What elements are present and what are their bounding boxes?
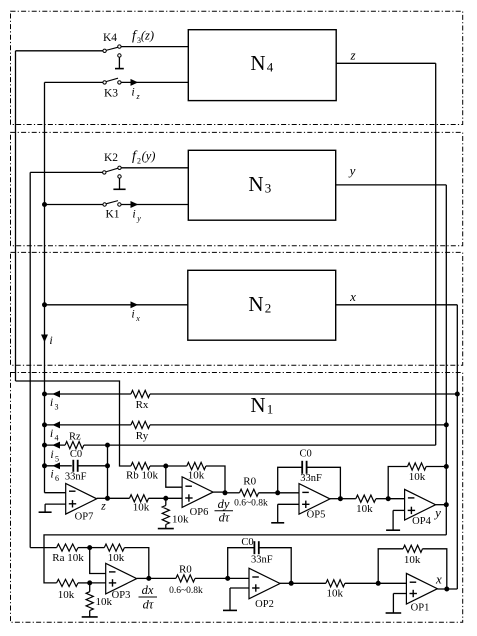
node i5: [43, 443, 47, 447]
svg-text:R0: R0: [243, 475, 256, 487]
svg-text:x: x: [435, 572, 442, 587]
label f3(z): [132, 29, 154, 46]
label i4: [50, 426, 59, 443]
wire: K2 left contact west: [30, 171, 102, 173]
svg-text:6: 6: [55, 474, 59, 483]
resistor 10k from z to OP6 +: [108, 495, 166, 514]
switch K1: [103, 201, 121, 221]
node: OP5 inverting node: [276, 491, 280, 495]
node: Ry to y line: [444, 423, 448, 427]
svg-text:Rx: Rx: [136, 399, 149, 411]
resistor Rb 10k: [126, 462, 166, 481]
svg-text:OP7: OP7: [75, 512, 94, 523]
op-amp OP7: [66, 484, 97, 523]
wire: OP5 inverting input: [278, 492, 299, 494]
wire: K3 left contact west to i-bus: [45, 81, 103, 83]
svg-text:33nF: 33nF: [251, 555, 273, 566]
capacitor C0 33nF (OP7 integrator): [65, 449, 108, 483]
node i6: [43, 464, 47, 468]
svg-text:OP5: OP5: [307, 510, 326, 521]
label ix: [131, 307, 140, 324]
svg-text:10k: 10k: [108, 552, 125, 564]
svg-text:Ra 10k: Ra 10k: [52, 552, 84, 564]
svg-text:K3: K3: [104, 88, 118, 100]
svg-text:OP1: OP1: [411, 602, 430, 613]
svg-text:K2: K2: [104, 152, 118, 164]
wire: i-bus into OP7 inverting input: [45, 492, 66, 494]
svg-text:i: i: [131, 307, 134, 321]
svg-text:dτ: dτ: [219, 510, 230, 524]
node: OP1 output: [445, 587, 449, 591]
svg-text:i: i: [50, 447, 53, 461]
label i6: [50, 467, 59, 484]
node: OP4 output on y line: [444, 503, 448, 507]
svg-text:N: N: [250, 393, 265, 417]
svg-text:2: 2: [137, 157, 141, 166]
node: OP4 inverting node: [386, 497, 390, 501]
wire: N2 output x: [336, 304, 458, 306]
label dx/dtau: [139, 583, 158, 611]
resistor 10k OP4 feedback to y line: [388, 463, 446, 499]
svg-text:C0: C0: [70, 449, 82, 460]
wire: K2 upper contact to N3 input: [121, 167, 188, 169]
node: feedback to y line: [444, 465, 448, 469]
wire: i4 tap with arrow: [45, 422, 131, 427]
svg-text:y: y: [136, 214, 141, 223]
svg-text:10k: 10k: [58, 589, 75, 601]
svg-text:10k: 10k: [404, 554, 421, 566]
wire: K4 upper contact to N4 input: [121, 46, 188, 48]
svg-text:10k: 10k: [326, 588, 343, 600]
wire: OP3 + input: [90, 582, 106, 584]
node: OP6 + input node: [164, 496, 168, 500]
label iz: [131, 85, 140, 102]
svg-text:Ry: Ry: [136, 430, 149, 442]
svg-text:10k: 10k: [133, 502, 150, 514]
wire: f3 net horizontal jog and down to Rb: [16, 381, 131, 466]
open-contact stub of K2: [113, 178, 125, 189]
wire: f2 net vertical down to Ra: [29, 172, 31, 547]
switch K2: [103, 152, 122, 178]
wire: OP3 output: [137, 577, 149, 579]
svg-text:5: 5: [55, 455, 59, 464]
open-contact stub of K4: [115, 57, 124, 68]
svg-text:Rb 10k: Rb 10k: [126, 469, 159, 481]
node: Rz to OP7 output branch: [106, 443, 110, 447]
svg-text:10k: 10k: [172, 513, 189, 525]
node: OP5 output: [338, 497, 342, 501]
dashed frame: section N1 / op-amp network: [11, 373, 463, 623]
wire: K3 to N4 lower input with current arrow: [121, 80, 188, 85]
wire: OP1 output to x line: [437, 588, 457, 590]
dashed frame: section N2: [11, 252, 463, 365]
svg-text:0.6~0.8k: 0.6~0.8k: [234, 499, 268, 509]
svg-text:33nF: 33nF: [65, 471, 87, 482]
node: OP6 inverting node: [164, 464, 168, 468]
label iy: [132, 207, 141, 224]
svg-text:1: 1: [267, 402, 274, 417]
wire: f3 net from K4 left contact west: [16, 50, 103, 52]
wire: i3 tap with arrow: [45, 391, 131, 396]
ground at OP2 + input: [223, 588, 249, 610]
svg-text:OP4: OP4: [412, 516, 431, 527]
svg-text:10k: 10k: [96, 596, 113, 608]
wire: y line to bottom rail and down to OP3 + branch: [44, 535, 446, 583]
label i5: [50, 447, 59, 464]
block N4: [188, 30, 336, 101]
wire: OP4 inverting input: [388, 498, 404, 500]
node: Rx to x line: [455, 392, 459, 396]
wire: i-bus vertical with current arrow i: [42, 82, 47, 492]
node: i-bus / K1 junction: [43, 203, 47, 207]
svg-text:y: y: [433, 505, 441, 520]
op-amp OP6: [182, 477, 213, 518]
op-amp OP3: [106, 563, 137, 601]
node: i-bus / N2 junction: [43, 303, 47, 307]
label N1: [250, 393, 273, 417]
svg-text:N: N: [248, 292, 263, 316]
wire: x feedback line down: [456, 305, 458, 589]
svg-text:N: N: [250, 51, 265, 75]
wire: f3 net vertical down left side: [15, 51, 17, 381]
wire: i5 tap with arrow: [45, 442, 66, 447]
svg-text:K4: K4: [103, 32, 117, 44]
resistor 10k (OP5 to OP4): [340, 495, 388, 515]
node: cap to OP7 output branch: [106, 464, 110, 468]
svg-text:4: 4: [267, 60, 274, 75]
wire: OP7 output to node z: [97, 497, 108, 499]
svg-text:33nF: 33nF: [300, 473, 322, 484]
svg-text:3: 3: [55, 403, 59, 412]
svg-text:dτ: dτ: [143, 597, 154, 611]
switch K3: [103, 78, 121, 99]
wire: OP7 output vertical branch: [107, 445, 109, 498]
node: OP6 output: [223, 491, 227, 495]
svg-text:x: x: [349, 289, 356, 304]
wire: K1 to N3 lower input with arrow: [121, 202, 188, 207]
svg-text:(z): (z): [141, 29, 154, 43]
svg-text:dx: dx: [142, 583, 154, 597]
svg-text:OP2: OP2: [255, 599, 274, 610]
resistor Rz: [65, 431, 436, 448]
resistor 10k pulldown at OP3 +: [86, 583, 112, 611]
wire: OP4 output to y line: [436, 504, 447, 506]
svg-text:C0: C0: [299, 448, 311, 459]
svg-text:z: z: [349, 48, 355, 63]
svg-text:(y): (y): [142, 149, 156, 163]
wire: y feedback line down: [445, 185, 447, 535]
wire: OP6 output: [213, 491, 225, 493]
node: OP2 inverting node: [226, 576, 230, 580]
resistor Ra 10k: [30, 544, 89, 564]
node: OP2 output: [289, 581, 293, 585]
svg-text:y: y: [348, 163, 356, 178]
wire: OP6 inverting input from node: [166, 466, 182, 487]
capacitor C0 33nF (OP5 feedback): [278, 448, 341, 498]
wire: OP1 inverting input: [378, 582, 406, 584]
node: OP3 output: [147, 576, 151, 580]
wire: i6 tap with arrow: [45, 463, 72, 468]
op-amp OP2: [249, 568, 280, 610]
svg-text:i: i: [131, 85, 134, 99]
ground at OP5 + input: [271, 504, 299, 523]
svg-text:0.6~0.8k: 0.6~0.8k: [169, 586, 203, 596]
block N2: [188, 270, 336, 340]
node: z output of OP7: [106, 496, 110, 500]
svg-text:i: i: [132, 207, 135, 221]
svg-text:i: i: [50, 426, 53, 440]
ground of OP3 pulldown: [89, 611, 91, 617]
resistor Rx: [131, 390, 457, 411]
op-amp OP5: [299, 484, 330, 521]
svg-text:10k: 10k: [188, 469, 205, 481]
wire: OP6 + input: [166, 497, 182, 499]
wire: N4 output z: [336, 62, 436, 64]
svg-text:i: i: [50, 395, 53, 409]
svg-text:R0: R0: [179, 564, 192, 576]
svg-text:OP3: OP3: [112, 590, 131, 601]
resistor 10k pulldown at OP6 +: [162, 498, 189, 525]
resistor 10k OP3 feedback: [90, 544, 149, 578]
resistor 10k OP6 feedback: [166, 462, 225, 493]
switch K4: [103, 32, 121, 57]
wire: K1 left contact to i-bus: [45, 204, 103, 206]
wire: OP3 inverting input drop: [90, 548, 106, 574]
resistor Ry: [131, 421, 446, 442]
resistor R0 0.6~0.8k (OP3 to OP2): [149, 564, 228, 597]
capacitor C0 33nF (OP2 feedback): [228, 537, 292, 583]
svg-text:10k: 10k: [409, 471, 426, 483]
label i3: [50, 395, 59, 412]
svg-text:Rz: Rz: [69, 431, 81, 442]
svg-text:i: i: [49, 333, 52, 347]
wire: i-bus to N2 input with arrow ix: [45, 302, 188, 307]
svg-text:K1: K1: [105, 209, 119, 221]
resistor 10k OP1 feedback: [378, 545, 447, 589]
op-amp OP4: [405, 489, 436, 527]
resistor 10k to OP3 + input: [57, 579, 90, 601]
wire: N3 output y: [336, 184, 447, 186]
svg-text:N: N: [248, 172, 263, 196]
svg-text:2: 2: [265, 301, 272, 316]
op-amp OP1: [406, 573, 437, 613]
label f2(y): [132, 149, 155, 166]
wire: OP5 output: [330, 498, 340, 500]
node: OP1 inverting node: [376, 581, 380, 585]
block N3: [188, 150, 335, 220]
svg-text:4: 4: [55, 434, 59, 443]
wire: OP2 inverting input: [228, 577, 249, 579]
ground at OP7 + input: [39, 504, 66, 512]
node i4: [43, 423, 47, 427]
svg-text:z: z: [100, 499, 106, 513]
dashed frame: section f2(y)/N3: [11, 132, 463, 245]
svg-text:x: x: [135, 314, 140, 323]
svg-text:OP6: OP6: [190, 507, 209, 518]
svg-text:10k: 10k: [356, 503, 373, 515]
svg-text:i: i: [50, 467, 53, 481]
wire: OP2 output: [280, 582, 292, 584]
svg-text:3: 3: [265, 181, 272, 196]
resistor 10k (OP2 to OP1): [291, 580, 378, 600]
wire: z feedback line down: [435, 63, 437, 445]
svg-text:C0: C0: [241, 537, 253, 548]
node i3: [43, 392, 47, 396]
label dy/dtau: [215, 497, 234, 524]
ground at OP4 + input: [386, 510, 405, 530]
dashed frame: section f3(z)/N4: [11, 11, 463, 124]
resistor R0 0.6~0.8k (OP6 to OP5): [225, 475, 278, 508]
node: OP3 + input node: [88, 581, 92, 585]
svg-text:dy: dy: [218, 497, 230, 511]
node: OP3 inverting node: [88, 546, 92, 550]
ground of OP6 pulldown: [165, 525, 167, 529]
ground at OP1 + input: [386, 594, 407, 614]
